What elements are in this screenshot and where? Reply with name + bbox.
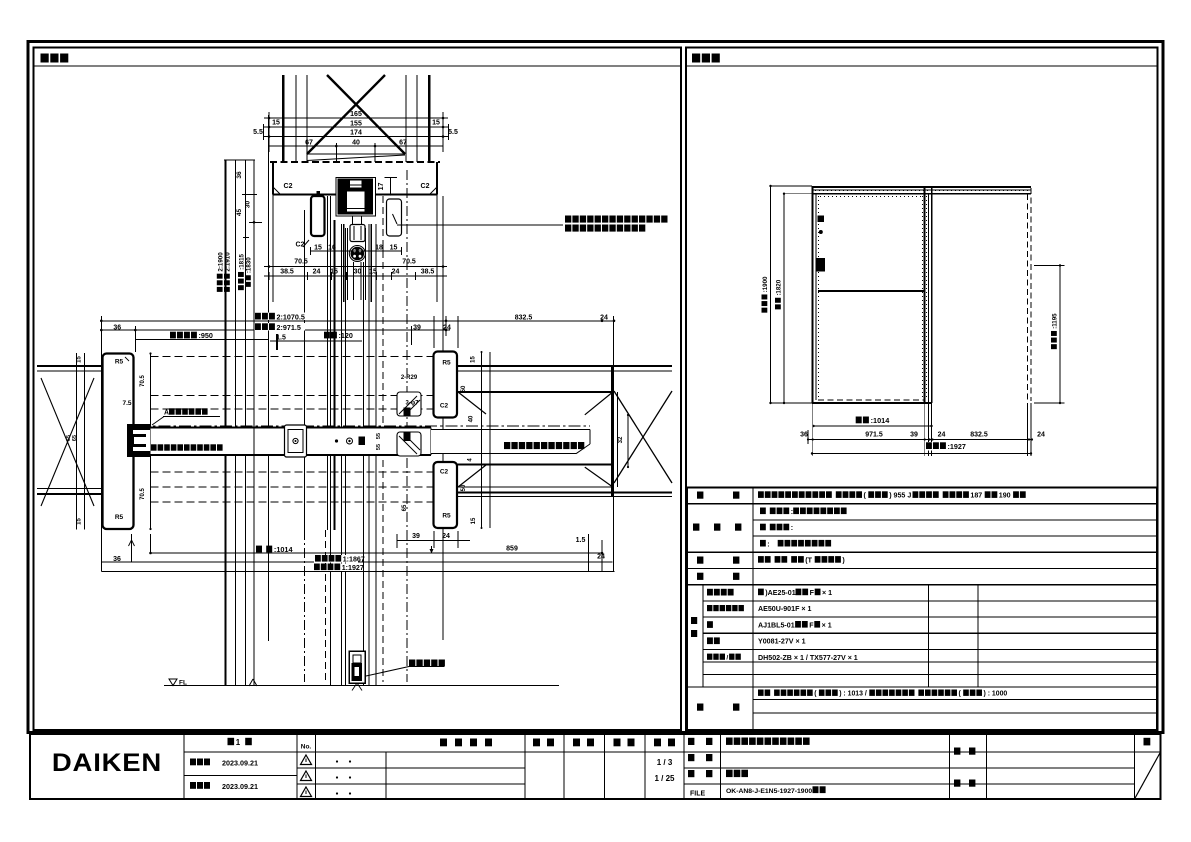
svg-text::1927: :1927 xyxy=(948,442,966,451)
lock cylinder details in door bar xyxy=(335,439,338,442)
svg-text:2:1900: 2:1900 xyxy=(217,252,224,272)
door centerline dash-dot xyxy=(138,425,590,427)
wall end diagonals xyxy=(585,392,613,415)
svg-text:7.5: 7.5 xyxy=(122,400,131,407)
svg-text:832.5: 832.5 xyxy=(515,314,533,321)
elevation mullion xyxy=(924,186,926,403)
hanger bolt neck xyxy=(352,216,354,225)
svg-text:55: 55 xyxy=(376,433,382,439)
svg-text:2023.09.21: 2023.09.21 xyxy=(222,782,258,791)
svg-text:1.5: 1.5 xyxy=(576,537,586,544)
warning triangles xyxy=(301,755,312,765)
svg-text:2:1910: 2:1910 xyxy=(225,252,232,272)
bottom dim ticks xyxy=(131,534,133,562)
hanger housing xyxy=(350,225,365,242)
mullion dims rotated xyxy=(471,356,477,363)
left wall studs xyxy=(76,353,78,530)
title block horizontals xyxy=(184,751,1161,753)
center mullion bottom xyxy=(434,462,458,528)
head jamb box outline xyxy=(272,162,274,195)
inner pocket left chamfers xyxy=(458,392,486,414)
right panel border xyxy=(686,48,1158,731)
title block frame xyxy=(30,734,1161,799)
spec beko label xyxy=(697,704,703,711)
svg-text:15: 15 xyxy=(77,518,83,525)
wall stud lines top xyxy=(282,75,285,162)
chamfer C2 left xyxy=(273,187,281,195)
guide pin floor arrow xyxy=(352,683,357,691)
mullion dim verticals xyxy=(481,352,483,528)
svg-text::1014: :1014 xyxy=(871,416,891,425)
left wall X brace xyxy=(41,378,94,506)
svg-text:859: 859 xyxy=(506,546,518,553)
top dim line 971.5 xyxy=(101,329,450,331)
spec hinmoku vertical label xyxy=(691,617,697,624)
svg-text:1 / 3: 1 / 3 xyxy=(657,758,673,767)
door width dim 1014 elevation xyxy=(814,425,932,427)
dim line yuko opening 950 xyxy=(170,332,176,339)
title block verticals xyxy=(183,734,185,799)
svg-text:36: 36 xyxy=(800,432,808,439)
svg-text:65: 65 xyxy=(72,435,78,441)
fixing dot on head xyxy=(317,191,321,195)
svg-text:971.5: 971.5 xyxy=(865,432,883,439)
spec table frame xyxy=(687,488,1157,731)
svg-text::: : xyxy=(791,524,793,532)
svg-text:24: 24 xyxy=(392,269,400,276)
revision dots xyxy=(336,760,338,762)
right pocket profile xyxy=(387,199,402,236)
svg-text:× 1: × 1 xyxy=(822,589,832,597)
brace bottom chord xyxy=(307,153,405,155)
left panel title bar line xyxy=(34,65,682,67)
svg-text:C2: C2 xyxy=(421,183,430,190)
svg-text:(T: (T xyxy=(805,557,812,565)
svg-text:30: 30 xyxy=(354,269,362,276)
projection lines center xyxy=(304,210,306,530)
svg-text:36: 36 xyxy=(113,556,121,563)
svg-text:155: 155 xyxy=(350,121,362,128)
top dim line 1070.5 xyxy=(101,320,614,322)
svg-text:32: 32 xyxy=(618,436,624,443)
jamb clip black xyxy=(127,424,150,457)
svg-text:2:971.5: 2:971.5 xyxy=(277,323,301,332)
right height dim 1195 xyxy=(1059,266,1061,404)
door width dim 1014 and 859 xyxy=(151,552,603,554)
svg-text:39: 39 xyxy=(413,324,421,331)
svg-text:65: 65 xyxy=(402,504,408,511)
65 65 rotated xyxy=(66,435,72,441)
label 1070.5 boxed xyxy=(254,313,312,321)
svg-text:3-φ7: 3-φ7 xyxy=(406,401,420,407)
cap strip with note xyxy=(431,429,590,453)
svg-text:No.: No. xyxy=(301,744,312,751)
svg-text::: : xyxy=(767,540,769,548)
right panel title bar line xyxy=(686,65,1158,67)
svg-text::1900: :1900 xyxy=(762,276,769,292)
rail width dim 17 xyxy=(378,183,385,191)
svg-text:DAIKEN: DAIKEN xyxy=(52,748,162,777)
door end hardware lower xyxy=(397,432,421,456)
jamb dim 70.5 rotated xyxy=(140,375,146,387)
elevation top rail xyxy=(812,186,1031,188)
page label xyxy=(1144,738,1151,746)
svg-text:FILE: FILE xyxy=(690,791,705,798)
svg-text:70.5: 70.5 xyxy=(402,259,416,266)
svg-text:1:1867: 1:1867 xyxy=(343,555,365,563)
svg-text::1830: :1830 xyxy=(246,257,253,273)
elevation sub dims xyxy=(808,439,1032,441)
long dim line under head xyxy=(264,266,447,268)
wall end post xyxy=(611,366,614,497)
elevation door bottom xyxy=(812,402,932,404)
svg-text:24: 24 xyxy=(442,533,450,540)
svg-text:190: 190 xyxy=(999,492,1011,500)
revision header dai-1-han xyxy=(228,738,235,745)
bolt lines below wheel xyxy=(353,262,355,300)
left height dim 1820 xyxy=(783,194,785,403)
svg-text:24: 24 xyxy=(1037,432,1045,439)
svg-text:38.5: 38.5 xyxy=(280,269,294,276)
vertical dim ticks middle xyxy=(100,316,102,571)
svg-text:R5: R5 xyxy=(115,359,124,366)
svg-text:832.5: 832.5 xyxy=(970,432,988,439)
svg-text:C2: C2 xyxy=(440,403,449,410)
left height dim 1900 xyxy=(770,186,772,403)
svg-text:1 / 25: 1 / 25 xyxy=(654,774,675,783)
svg-text:R5: R5 xyxy=(442,513,451,520)
FL marker xyxy=(169,679,177,686)
cap note text xyxy=(504,442,510,449)
svg-text:30: 30 xyxy=(245,201,252,209)
kenmei label xyxy=(954,748,960,755)
door leaf plan bar xyxy=(151,428,432,456)
page diagonal xyxy=(1135,752,1161,799)
svg-text::950: :950 xyxy=(199,331,213,340)
svg-text:36: 36 xyxy=(113,324,121,331)
spec sub labels xyxy=(707,589,713,596)
svg-text:C2: C2 xyxy=(440,469,449,476)
svg-text:15: 15 xyxy=(77,356,83,363)
right pocket leader xyxy=(393,214,398,224)
svg-text:15: 15 xyxy=(471,517,477,524)
dim line 1867 xyxy=(101,561,612,563)
frame width dim 1927 xyxy=(812,453,1031,455)
door end hardware upper xyxy=(397,392,421,416)
head jamb box dashed top xyxy=(270,161,440,163)
svg-text:67: 67 xyxy=(305,140,313,147)
left wall long verticals xyxy=(224,159,255,161)
meisho label xyxy=(688,738,694,745)
left pocket profile xyxy=(311,196,325,236)
svg-text::1014: :1014 xyxy=(274,545,294,554)
svg-text::1195: :1195 xyxy=(1052,313,1059,329)
svg-text:) 955 J: ) 955 J xyxy=(889,492,911,500)
elevation right pocket dashed xyxy=(1027,194,1029,401)
svg-text:C2: C2 xyxy=(284,183,293,190)
svg-text:50: 50 xyxy=(461,484,467,491)
floor line xyxy=(164,685,559,687)
svg-text::: : xyxy=(791,508,793,516)
kaitei rireki header xyxy=(440,739,447,747)
section label shomenzu xyxy=(692,54,700,63)
left panel border xyxy=(34,48,682,731)
spec row labels xyxy=(697,492,703,499)
dim line 1927 xyxy=(101,570,614,572)
extra floor projection line xyxy=(253,160,255,686)
svg-text:24: 24 xyxy=(938,432,946,439)
pocket dim line xyxy=(311,250,402,252)
svg-text:24: 24 xyxy=(443,324,451,331)
spec row values xyxy=(758,491,764,498)
svg-text:A: A xyxy=(164,410,169,417)
svg-text:× 1: × 1 xyxy=(822,621,832,629)
chamfer C2 right xyxy=(430,187,438,195)
hidden pocket dashed lines xyxy=(151,356,434,358)
door leaf verticals upper xyxy=(343,224,345,302)
center mullion top xyxy=(434,352,458,418)
svg-text:40: 40 xyxy=(469,415,475,422)
shukushaku header xyxy=(654,739,661,747)
svg-text:2023.09.21: 2023.09.21 xyxy=(222,759,258,768)
svg-text:R5: R5 xyxy=(115,514,124,521)
svg-text:)AE25-01: )AE25-01 xyxy=(765,589,795,597)
svg-text:50: 50 xyxy=(461,385,467,392)
guide pin label xyxy=(409,660,415,667)
section label danmenzu xyxy=(41,54,49,63)
svg-text::1815: :1815 xyxy=(239,253,246,269)
svg-text:70.5: 70.5 xyxy=(140,488,146,500)
svg-text:15: 15 xyxy=(314,245,322,252)
hinban label xyxy=(688,754,694,761)
elevation bottom extension lines xyxy=(812,403,814,456)
svg-text:45: 45 xyxy=(236,209,243,217)
svg-text:70.5: 70.5 xyxy=(294,259,308,266)
recessed pull on door xyxy=(285,425,307,457)
height dim rotated labels xyxy=(217,252,225,292)
right wall plan lines outer xyxy=(457,365,672,367)
svg-text:24: 24 xyxy=(600,314,608,321)
second dim line xyxy=(264,275,447,277)
bottom small dim 39 24 xyxy=(397,540,470,542)
elevation middle rail xyxy=(818,290,925,292)
svg-text:17: 17 xyxy=(378,183,385,191)
left wall plan lines xyxy=(37,365,103,367)
svg-text:) : 1013 /: ) : 1013 / xyxy=(839,691,867,698)
shonin header xyxy=(533,739,540,747)
svg-text:) : 1000: ) : 1000 xyxy=(984,691,1008,698)
head box side continuation lines xyxy=(272,195,274,303)
svg-text:187: 187 xyxy=(970,492,982,500)
seitei date xyxy=(190,759,196,766)
hanger wheel xyxy=(349,246,365,262)
spec table verticals xyxy=(752,488,754,731)
install note text xyxy=(565,216,571,223)
svg-text:2:1070.5: 2:1070.5 xyxy=(277,312,305,321)
X cross brace top xyxy=(327,75,405,154)
svg-text:15: 15 xyxy=(272,120,280,127)
svg-text:39: 39 xyxy=(412,533,420,540)
svg-text:67: 67 xyxy=(399,140,407,147)
svg-text:F: F xyxy=(809,621,814,629)
kaitei date xyxy=(190,782,196,789)
hanger rail block xyxy=(338,179,374,215)
svg-text:/: / xyxy=(726,655,728,662)
svg-text:FL: FL xyxy=(179,680,187,687)
sheet outer border xyxy=(28,42,1163,733)
svg-text:AJ1BL5-01: AJ1BL5-01 xyxy=(758,621,795,629)
svg-text:174: 174 xyxy=(350,130,362,137)
svg-text:15: 15 xyxy=(471,356,477,363)
svg-text:36: 36 xyxy=(236,171,243,179)
svg-text:5.5: 5.5 xyxy=(448,129,458,136)
svg-text:24: 24 xyxy=(313,269,321,276)
right wall plan lines inner xyxy=(457,391,613,393)
cap note text left xyxy=(151,444,157,450)
slanted cap line xyxy=(307,155,405,161)
dim extension far left xyxy=(268,115,270,641)
spec table rows xyxy=(687,503,1157,505)
svg-text:1:1927: 1:1927 xyxy=(342,564,364,572)
svg-text:Y0081-27V × 1: Y0081-27V × 1 xyxy=(758,638,806,646)
svg-text::1820: :1820 xyxy=(776,279,783,295)
meisho value xyxy=(726,738,733,745)
svg-text:2-R29: 2-R29 xyxy=(401,375,418,381)
svg-text:C2: C2 xyxy=(296,242,305,249)
zumei value xyxy=(726,770,733,777)
32 dim at wall end xyxy=(627,415,629,467)
svg-text:DH502-ZB × 1 / TX577-27V × 1: DH502-ZB × 1 / TX577-27V × 1 xyxy=(758,654,858,662)
tanto label xyxy=(954,780,960,787)
svg-text:165: 165 xyxy=(350,111,362,118)
spec remarks value xyxy=(758,690,764,696)
36 45 30 rotated dims xyxy=(236,171,243,179)
svg-text:5.5: 5.5 xyxy=(253,129,263,136)
svg-text::120: :120 xyxy=(339,331,353,340)
left jamb post xyxy=(103,354,134,530)
svg-text:15: 15 xyxy=(390,245,398,252)
dim lines top assembly xyxy=(264,117,448,119)
small tick near floor xyxy=(249,679,253,686)
svg-text:F: F xyxy=(810,589,815,597)
wall end X bowtie xyxy=(614,391,672,483)
mullion extension ticks xyxy=(433,316,435,348)
svg-text:24: 24 xyxy=(597,554,605,561)
zumei label xyxy=(688,770,694,777)
svg-text:OK-AN8-J-E1N5-1927-1900-: OK-AN8-J-E1N5-1927-1900- xyxy=(726,788,814,795)
svg-text:R5: R5 xyxy=(442,360,451,367)
elevation left jamb xyxy=(812,186,814,403)
elevation handle hardware xyxy=(818,216,825,223)
svg-text:39: 39 xyxy=(910,432,918,439)
svg-text:AE50U-901F × 1: AE50U-901F × 1 xyxy=(758,605,811,613)
guide pin detail xyxy=(349,651,365,683)
svg-text:15: 15 xyxy=(432,120,440,127)
sakusei header xyxy=(614,739,621,747)
kakunin header xyxy=(573,739,580,747)
svg-text:1: 1 xyxy=(236,738,241,747)
dim extension ticks top xyxy=(268,112,270,152)
svg-text:40: 40 xyxy=(352,140,360,147)
svg-text:70.5: 70.5 xyxy=(140,375,146,387)
svg-text:38.5: 38.5 xyxy=(421,269,435,276)
svg-text:55: 55 xyxy=(376,444,382,450)
